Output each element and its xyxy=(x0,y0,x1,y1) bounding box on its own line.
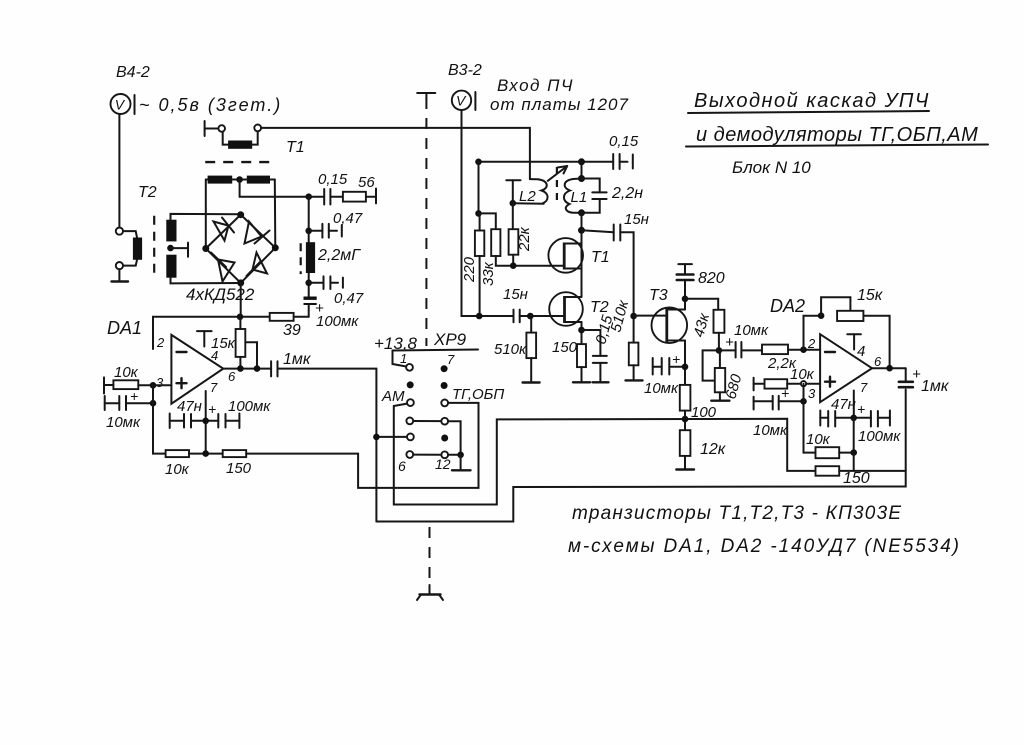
svg-text:DA2: DA2 xyxy=(770,296,805,316)
svg-text:Вход ПЧ: Вход ПЧ xyxy=(497,76,574,95)
wire tap to 0,15 row xyxy=(240,180,309,197)
svg-text:1мк: 1мк xyxy=(921,378,950,395)
resistor 680 xyxy=(715,368,725,392)
svg-text:ХР9: ХР9 xyxy=(433,330,467,349)
node T3 gate xyxy=(630,313,637,320)
pin АМ row1 xyxy=(407,399,414,406)
node xyxy=(202,418,209,425)
transistor T1 xyxy=(548,238,583,273)
resistor 10к DA2 input xyxy=(765,379,788,388)
wire center tap terminal xyxy=(171,243,189,257)
wire + terminal xyxy=(366,189,376,204)
wire drain to 43к xyxy=(685,299,718,310)
resistor 150 T2 xyxy=(577,344,586,367)
terminal 10к DA2 xyxy=(753,378,755,391)
resistor 510к T2 gate xyxy=(526,333,536,359)
capacitor 0,47 lower xyxy=(309,276,343,289)
plus input xyxy=(177,378,187,388)
wire L1 bottom down xyxy=(581,213,583,244)
svg-text:2: 2 xyxy=(156,335,165,350)
wire bridge bottom down xyxy=(240,283,242,317)
wire junction chain xyxy=(839,418,906,471)
svg-text:7: 7 xyxy=(447,352,455,367)
wire 33к bottom xyxy=(496,256,550,266)
diode bridge 4xКД522 diamond xyxy=(206,215,275,283)
wire 680 loop xyxy=(703,350,719,380)
svg-text:ТГ,ОБП: ТГ,ОБП xyxy=(452,386,504,403)
wire DA1 top rail xyxy=(153,317,270,349)
svg-text:6: 6 xyxy=(398,458,406,474)
jack contact upper T2 xyxy=(116,228,123,235)
diode D1 upper-left xyxy=(214,218,235,241)
inductor 2,2мГ xyxy=(306,242,315,273)
wire to 33к xyxy=(479,213,496,229)
svg-text:+: + xyxy=(857,401,865,417)
wire secondary bottom to bridge xyxy=(171,278,241,284)
node xyxy=(818,312,825,319)
pin row3 right (marker) xyxy=(441,435,448,442)
ground shield xyxy=(417,585,443,600)
svg-text:+: + xyxy=(725,334,734,351)
wire T1 to L2 xyxy=(261,128,530,179)
svg-text:4хКД522: 4хКД522 xyxy=(186,285,255,304)
wire xyxy=(104,384,171,386)
shield dashed line upper xyxy=(425,98,427,346)
bridge shield dashed xyxy=(205,161,276,163)
node xyxy=(475,210,482,217)
svg-text:1мк: 1мк xyxy=(283,351,312,368)
svg-text:4: 4 xyxy=(857,343,865,360)
svg-text:15н: 15н xyxy=(503,286,528,303)
svg-text:150: 150 xyxy=(552,339,578,356)
wire x309 xyxy=(308,197,310,298)
svg-text:3: 3 xyxy=(808,386,816,401)
minus input xyxy=(825,351,835,353)
svg-text:510к: 510к xyxy=(494,341,527,358)
resistor 2,2к xyxy=(762,345,788,355)
wire DA2 output xyxy=(872,367,906,369)
node 39/bridge xyxy=(237,314,244,321)
node xyxy=(510,200,517,207)
op-amp DA1 xyxy=(171,335,223,404)
svg-text:150: 150 xyxy=(843,470,870,487)
svg-text:10мк: 10мк xyxy=(106,414,141,431)
plus input xyxy=(825,377,835,387)
diode D4 lower-right xyxy=(247,253,268,277)
svg-text:+: + xyxy=(672,351,680,367)
svg-text:Т3: Т3 xyxy=(649,287,668,304)
node bridge left xyxy=(202,245,209,252)
node xyxy=(800,398,807,405)
node bridge top xyxy=(237,211,244,218)
capacitor 2,2н xyxy=(582,179,607,213)
transistor T2 xyxy=(534,292,583,326)
wire pin2 riser xyxy=(804,316,822,350)
wire xyxy=(839,452,854,454)
svg-text:Т1: Т1 xyxy=(591,249,610,266)
svg-text:L2: L2 xyxy=(519,188,536,205)
svg-text:10мк: 10мк xyxy=(753,422,788,439)
node xyxy=(457,452,464,459)
bridge top winding right xyxy=(247,176,270,184)
resistor 10к input xyxy=(113,380,138,389)
svg-text:100мк: 100мк xyxy=(228,398,271,415)
svg-text:56: 56 xyxy=(358,174,375,191)
node pin3 xyxy=(150,382,157,389)
wire B4-2 down xyxy=(118,114,120,227)
capacitor 100мк electrolytic xyxy=(304,298,317,317)
wire L1 top lead xyxy=(581,162,583,179)
resistor 22к xyxy=(509,229,519,255)
svg-text:Блок N 10: Блок N 10 xyxy=(732,158,811,177)
svg-text:12: 12 xyxy=(435,456,451,472)
pin row3 left xyxy=(407,434,414,441)
pin row2 left xyxy=(406,418,413,425)
svg-text:от платы 1207: от платы 1207 xyxy=(490,95,629,114)
capacitor 10мк series xyxy=(719,342,762,358)
wire 15к leads xyxy=(240,317,257,369)
resistor 10к bottom xyxy=(166,450,189,457)
wire feedback loop xyxy=(821,297,850,316)
svg-text:0,47: 0,47 xyxy=(333,210,363,227)
wire output net to DA2 side xyxy=(376,390,905,522)
capacitor 0,15 xyxy=(309,189,343,205)
svg-text:6: 6 xyxy=(874,354,882,369)
svg-text:+: + xyxy=(208,401,216,417)
node xyxy=(578,209,585,216)
svg-text:10к: 10к xyxy=(806,431,831,448)
ground under jack xyxy=(112,269,129,281)
capacitor 0,15 T2 source xyxy=(582,330,609,382)
svg-text:+: + xyxy=(912,366,921,383)
svg-text:В4-2: В4-2 xyxy=(116,64,150,81)
capacitor 10мк DA2 input xyxy=(754,396,804,410)
node xyxy=(150,400,157,407)
wire to primary top xyxy=(123,231,137,237)
node xyxy=(373,434,380,441)
svg-text:47н: 47н xyxy=(831,396,856,413)
wire T3 drain xyxy=(684,299,686,310)
node xyxy=(850,449,857,456)
bridge top winding left xyxy=(208,176,233,184)
wire row3 from 1мк xyxy=(376,436,407,438)
node xyxy=(510,262,517,269)
svg-text:33к: 33к xyxy=(480,261,497,286)
wire 22к bottom xyxy=(512,255,514,266)
wire 15к to output xyxy=(863,316,889,369)
svg-text:22к: 22к xyxy=(516,226,533,252)
node xyxy=(578,175,585,182)
wire xyxy=(684,411,686,431)
capacitor 10мк T3 source xyxy=(653,358,685,375)
svg-text:2: 2 xyxy=(807,336,816,351)
svg-text:Выходной каскад УПЧ: Выходной каскад УПЧ xyxy=(694,90,930,112)
pin 7 contact xyxy=(441,365,448,372)
capacitor 1мк DA2 output xyxy=(899,368,913,387)
wire pin7 xyxy=(205,391,207,454)
svg-text:и демодуляторы ТГ,ОБП,АМ: и демодуляторы ТГ,ОБП,АМ xyxy=(696,124,978,146)
node xyxy=(305,280,312,287)
resistor 510к T3 gate xyxy=(629,343,639,366)
svg-text:100мк: 100мк xyxy=(858,428,901,445)
resistor 15к feedback xyxy=(837,311,863,321)
wire 39 to x309 xyxy=(294,316,309,318)
svg-text:220: 220 xyxy=(461,256,478,283)
wire 220 leads xyxy=(479,213,481,316)
wire bridge left leg xyxy=(205,180,207,249)
wire L2 to 22к xyxy=(512,203,514,229)
node pin3 xyxy=(801,381,806,386)
wire bridge top rail xyxy=(206,179,275,181)
wire output to AM xyxy=(278,369,377,522)
svg-text:DA1: DA1 xyxy=(107,318,142,338)
resistor 33к xyxy=(491,229,500,256)
svg-text:100: 100 xyxy=(691,404,717,421)
svg-text:~ 0,5в (3гет.): ~ 0,5в (3гет.) xyxy=(139,95,282,115)
svg-text:820: 820 xyxy=(698,270,725,287)
wire xyxy=(223,132,228,145)
wire secondary top to bridge xyxy=(171,214,241,220)
node xyxy=(886,365,893,372)
capacitor 47н xyxy=(170,414,219,429)
minus input xyxy=(177,351,187,353)
pin row4 left xyxy=(406,451,413,458)
coil L2 xyxy=(513,179,548,204)
transformer T2 secondary winding lower xyxy=(166,255,176,278)
node bridge right xyxy=(272,244,279,251)
coupling dashed xyxy=(556,167,558,200)
node on АМ net xyxy=(682,416,689,423)
capacitor 1мк output xyxy=(271,361,277,376)
pin marker right xyxy=(441,382,448,389)
power terminal pin4 DA1 xyxy=(197,331,212,346)
node xyxy=(254,365,261,372)
capacitor 100мк DA2 xyxy=(854,411,890,427)
transformer T2 primary winding xyxy=(133,238,142,260)
transformer T2 core (dashed) xyxy=(153,216,155,278)
jack contact T1 left xyxy=(218,125,225,132)
diode D3 lower-left xyxy=(211,253,235,282)
capacitor 47н DA2 xyxy=(820,411,853,427)
diode D2 upper-right xyxy=(245,222,270,244)
svg-text:2,2н: 2,2н xyxy=(611,185,643,202)
wire + ground xyxy=(523,316,540,383)
node xyxy=(682,364,689,371)
svg-text:м-схемы DA1, DA2 -140УД7 (NE55: м-схемы DA1, DA2 -140УД7 (NE5534) xyxy=(568,536,961,557)
svg-text:6: 6 xyxy=(228,369,236,384)
wire T2 source xyxy=(581,322,583,344)
svg-text:0,47: 0,47 xyxy=(334,290,364,307)
pin marker left xyxy=(407,381,414,388)
wire DA1 output xyxy=(223,368,271,370)
svg-text:1: 1 xyxy=(400,351,407,366)
svg-text:7: 7 xyxy=(210,380,218,395)
svg-text:0,15: 0,15 xyxy=(318,171,348,188)
svg-text:12к: 12к xyxy=(700,441,727,458)
pin ТГ,ОБП row1 xyxy=(441,400,448,407)
wire + ground 680 xyxy=(711,350,729,400)
node xyxy=(202,450,209,457)
title underline 2 xyxy=(686,145,988,147)
coil L1 xyxy=(564,179,582,213)
wire T3 source down xyxy=(684,341,686,385)
svg-text:2,2мГ: 2,2мГ xyxy=(317,247,361,264)
svg-text:7: 7 xyxy=(860,380,868,395)
node DA2 pin2 xyxy=(800,346,807,353)
svg-text:0,15: 0,15 xyxy=(609,133,639,150)
node xyxy=(578,158,585,165)
resistor 56 xyxy=(343,192,366,202)
wire pin7 DA2 xyxy=(853,391,855,418)
wire xyxy=(189,453,223,455)
capacitor 100мк xyxy=(218,414,239,429)
node x309 top xyxy=(305,193,312,200)
wire pin3 down xyxy=(153,385,166,453)
resistor 15к feedback xyxy=(236,329,246,357)
op-amp DA2 xyxy=(820,334,872,402)
node xyxy=(578,327,585,334)
transistor T3 xyxy=(634,308,688,344)
resistor 10к DA2 bottom xyxy=(816,447,840,458)
wire row4 jumper xyxy=(413,454,460,456)
node bridge bottom xyxy=(237,279,244,286)
svg-text:Т2: Т2 xyxy=(138,184,157,201)
svg-text:транзисторы Т1,Т2,Т3 - КП303Е: транзисторы Т1,Т2,Т3 - КП303Е xyxy=(572,503,902,524)
resistor 150 DA2 bottom xyxy=(816,466,840,476)
node xyxy=(578,227,585,234)
wire + ground xyxy=(626,365,643,380)
svg-text:4: 4 xyxy=(211,348,218,363)
node xyxy=(850,415,857,422)
winding T1 xyxy=(228,141,252,149)
node xyxy=(305,228,312,235)
svg-text:L1: L1 xyxy=(571,189,588,206)
svg-text:+: + xyxy=(781,385,789,401)
capacitor 820 xyxy=(677,264,694,299)
wire to primary bottom xyxy=(123,260,137,266)
svg-text:39: 39 xyxy=(283,322,301,339)
capacitor 0,15 top xyxy=(613,154,633,169)
wire xyxy=(205,128,219,130)
wire row2 jumper xyxy=(413,421,460,451)
inductor core dashed xyxy=(300,243,302,274)
wire xyxy=(788,349,820,351)
wire xyxy=(718,333,720,351)
wire T1-T2 xyxy=(581,244,583,297)
svg-text:150: 150 xyxy=(226,460,252,477)
resistor 100 xyxy=(680,385,691,411)
svg-text:10мк: 10мк xyxy=(644,380,679,397)
ground xyxy=(573,367,590,382)
node 220 bottom xyxy=(476,313,483,320)
svg-text:+: + xyxy=(130,388,138,404)
svg-text:15н: 15н xyxy=(624,211,649,228)
svg-text:10к: 10к xyxy=(114,364,139,381)
terminal L2 xyxy=(506,180,520,203)
svg-text:10мк: 10мк xyxy=(734,322,769,339)
node xyxy=(237,365,244,372)
wire 150 to ТГ,ОБП net xyxy=(246,403,478,488)
ground row4 xyxy=(452,455,471,471)
wire pin3 down xyxy=(804,384,816,453)
node secondary center tap xyxy=(167,245,174,252)
shield dashed line lower xyxy=(429,527,431,585)
wire connector top xyxy=(393,350,479,367)
resistor 43к xyxy=(714,310,725,333)
wire xyxy=(754,383,821,385)
capacitor 15н drain xyxy=(582,225,634,317)
wire B3-2 down to T2 gate xyxy=(462,110,480,316)
svg-text:3: 3 xyxy=(156,375,164,390)
pin row4 right xyxy=(441,451,448,458)
wire L1 top rail xyxy=(479,161,614,163)
meter symbol B4-2 xyxy=(111,94,135,114)
svg-text:15к: 15к xyxy=(857,287,884,304)
wire АМ net left loop xyxy=(394,404,816,505)
pin 1 contact xyxy=(406,364,413,371)
resistor 220 xyxy=(475,231,484,257)
shield terminal top xyxy=(417,93,435,99)
svg-text:АМ: АМ xyxy=(381,388,405,405)
capacitor 10мк input xyxy=(105,396,153,410)
tuning arrow xyxy=(548,166,567,181)
capacitor 0,47 upper xyxy=(309,224,342,238)
capacitor 15н gate xyxy=(479,310,530,323)
wire bridge right leg xyxy=(274,180,277,248)
jack contact lower T2 xyxy=(116,262,123,269)
wire 478 drop xyxy=(478,162,480,214)
svg-text:В3-2: В3-2 xyxy=(448,62,482,79)
meter symbol B3-2 xyxy=(452,91,476,110)
node winding tap xyxy=(236,176,243,183)
node xyxy=(716,347,723,354)
wire xyxy=(252,131,258,144)
title underline 1 xyxy=(688,111,929,113)
ground 12к xyxy=(676,456,694,470)
pin row2 right xyxy=(441,418,448,425)
node xyxy=(475,159,482,166)
wire xyxy=(633,316,635,343)
svg-text:Т1: Т1 xyxy=(286,139,305,156)
jack terminal T1 xyxy=(204,121,206,136)
node T2 gate xyxy=(527,313,534,320)
power terminal pin4 DA2 xyxy=(847,334,861,349)
resistor 39 xyxy=(270,313,294,321)
transformer T2 secondary winding upper xyxy=(166,220,176,242)
svg-text:47н: 47н xyxy=(177,398,202,415)
node xyxy=(682,296,689,303)
resistor 150 bottom xyxy=(223,450,247,457)
jack contact T1 right xyxy=(254,125,261,132)
svg-text:10к: 10к xyxy=(165,461,190,478)
terminal input 10к xyxy=(103,377,105,393)
resistor 12к xyxy=(680,430,691,456)
svg-text:100мк: 100мк xyxy=(316,313,359,330)
